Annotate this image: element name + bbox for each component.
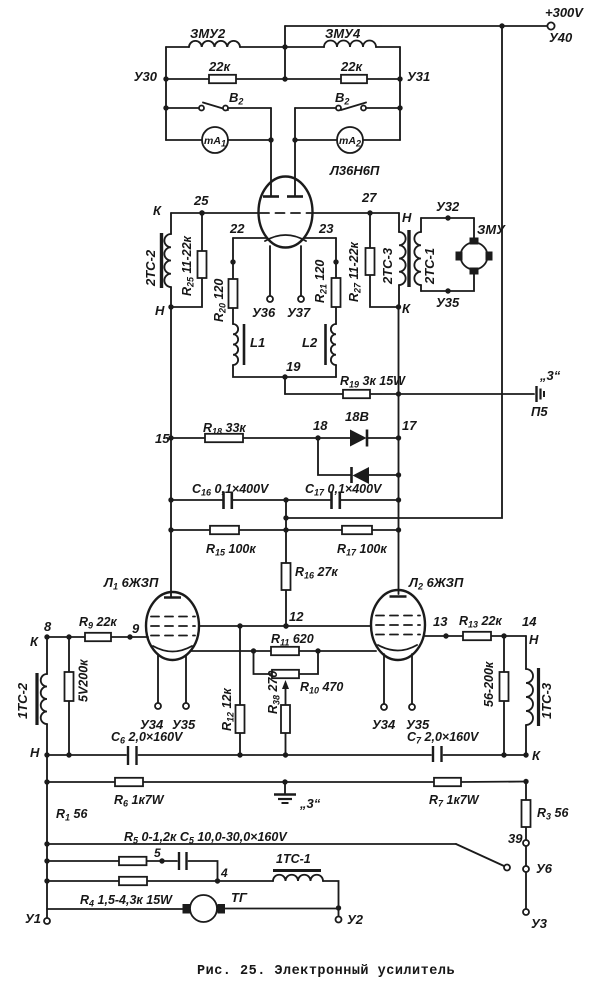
svg-text:Н: Н	[155, 303, 165, 318]
svg-text:18: 18	[313, 418, 328, 433]
svg-text:12: 12	[289, 609, 304, 624]
svg-text:Н: Н	[30, 745, 40, 760]
svg-text:5: 5	[154, 846, 161, 860]
svg-text:„3“: „3“	[539, 368, 561, 383]
svg-text:R6 1к7W: R6 1к7W	[114, 793, 165, 809]
svg-text:ЗМУ4: ЗМУ4	[325, 26, 361, 41]
svg-text:39: 39	[508, 831, 523, 846]
svg-text:ЗМУ: ЗМУ	[477, 222, 506, 237]
svg-text:Н: Н	[529, 632, 539, 647]
svg-text:+300V: +300V	[545, 5, 584, 20]
svg-text:5V200к: 5V200к	[77, 659, 91, 702]
svg-text:R38 270: R38 270	[266, 671, 282, 714]
svg-text:У34: У34	[372, 717, 396, 732]
svg-text:2ТС-3: 2ТС-3	[380, 247, 395, 285]
svg-text:23: 23	[318, 221, 334, 236]
svg-text:У40: У40	[549, 30, 573, 45]
svg-text:У35: У35	[436, 295, 460, 310]
svg-text:R11 620: R11 620	[271, 632, 314, 648]
svg-text:С6 2,0×160V: С6 2,0×160V	[111, 730, 184, 746]
svg-text:R9 22к: R9 22к	[79, 615, 117, 631]
svg-text:1ТС-1: 1ТС-1	[276, 852, 311, 866]
svg-text:R13 22к: R13 22к	[459, 614, 502, 630]
svg-text:27: 27	[361, 190, 377, 205]
svg-text:R25 11-22к: R25 11-22к	[180, 235, 196, 296]
svg-text:Рис. 25. Электронный усилитель: Рис. 25. Электронный усилитель	[197, 964, 455, 979]
svg-text:У32: У32	[436, 199, 460, 214]
svg-text:У6: У6	[536, 861, 553, 876]
svg-text:56-200к: 56-200к	[482, 661, 496, 707]
svg-text:Н: Н	[402, 210, 412, 225]
svg-text:У37: У37	[287, 305, 311, 320]
svg-text:13: 13	[433, 614, 448, 629]
svg-text:Л1 6ЖЗП: Л1 6ЖЗП	[103, 575, 159, 592]
svg-text:R18 33к: R18 33к	[203, 421, 246, 437]
svg-text:R16 27к: R16 27к	[295, 565, 338, 581]
svg-text:17: 17	[402, 418, 417, 433]
svg-text:R12 12к: R12 12к	[220, 688, 236, 731]
svg-text:R7 1к7W: R7 1к7W	[429, 793, 480, 809]
svg-text:У2: У2	[347, 912, 364, 927]
svg-text:Л36Н6П: Л36Н6П	[329, 163, 380, 178]
svg-text:2ТС-2: 2ТС-2	[143, 249, 158, 287]
svg-text:ТГ: ТГ	[231, 890, 248, 905]
svg-text:18В: 18В	[345, 409, 369, 424]
svg-text:R5 0-1,2к С5 10,0-30,0×160V: R5 0-1,2к С5 10,0-30,0×160V	[124, 830, 288, 846]
svg-text:14: 14	[522, 614, 537, 629]
svg-text:В2: В2	[335, 90, 349, 107]
svg-text:У36: У36	[252, 305, 276, 320]
svg-text:L1: L1	[250, 335, 265, 350]
svg-text:2ТС-1: 2ТС-1	[422, 248, 437, 285]
svg-text:R15 100к: R15 100к	[206, 542, 256, 558]
svg-text:25: 25	[193, 193, 209, 208]
svg-text:П5: П5	[531, 404, 548, 419]
svg-text:У30: У30	[134, 69, 158, 84]
svg-text:„3“: „3“	[299, 796, 321, 811]
svg-text:У31: У31	[407, 69, 430, 84]
svg-text:У3: У3	[531, 916, 548, 931]
svg-text:19: 19	[286, 359, 301, 374]
svg-text:4: 4	[220, 866, 228, 880]
svg-text:22к: 22к	[208, 59, 231, 74]
svg-text:8: 8	[44, 619, 52, 634]
svg-text:R27 11-22к: R27 11-22к	[347, 241, 363, 302]
svg-text:К: К	[153, 203, 162, 218]
svg-text:R17 100к: R17 100к	[337, 542, 387, 558]
svg-text:Л2 6ЖЗП: Л2 6ЖЗП	[408, 575, 464, 592]
svg-text:ЗМУ2: ЗМУ2	[190, 26, 226, 41]
svg-text:У1: У1	[25, 911, 41, 926]
svg-text:R20 120: R20 120	[212, 279, 228, 322]
svg-text:22к: 22к	[340, 59, 363, 74]
svg-text:R4 1,5-4,3к 15W: R4 1,5-4,3к 15W	[80, 893, 173, 909]
svg-text:22: 22	[229, 221, 245, 236]
svg-text:15: 15	[155, 431, 170, 446]
svg-text:1ТС-2: 1ТС-2	[15, 682, 30, 719]
svg-text:9: 9	[132, 621, 140, 636]
svg-text:В2: В2	[229, 90, 243, 107]
svg-text:R1 56: R1 56	[56, 807, 88, 823]
svg-text:R10 470: R10 470	[300, 680, 343, 696]
svg-text:С7 2,0×160V: С7 2,0×160V	[407, 730, 480, 746]
svg-text:К: К	[532, 748, 541, 763]
svg-text:1ТС-3: 1ТС-3	[539, 682, 554, 719]
svg-text:R19 3к 15W: R19 3к 15W	[340, 374, 406, 390]
svg-text:К: К	[30, 634, 39, 649]
svg-text:L2: L2	[302, 335, 318, 350]
svg-text:С17 0,1×400V: С17 0,1×400V	[305, 482, 383, 498]
svg-text:R3 56: R3 56	[537, 806, 569, 822]
svg-text:С16 0,1×400V: С16 0,1×400V	[192, 482, 270, 498]
svg-text:R21 120: R21 120	[313, 260, 329, 303]
svg-text:К: К	[402, 301, 411, 316]
